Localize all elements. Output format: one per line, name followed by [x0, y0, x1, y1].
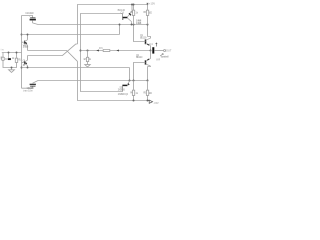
node arrow marker on output line: [116, 50, 119, 52]
node feedback resistor tap: [87, 50, 89, 52]
transistor Q6 lower driver: [22, 56, 28, 68]
node Q3 collector on bias line: [131, 24, 133, 26]
node OUT port circle: [164, 50, 166, 52]
wire lower emitter line: [22, 67, 130, 69]
svg-text:+15V: +15V: [149, 3, 156, 6]
wire Q2 base feed: [134, 63, 146, 81]
wire top bias line: [38, 24, 148, 26]
wire trunk output net lower (to Q4 base line): [81, 51, 123, 92]
ground feedback: [85, 65, 90, 67]
wire input line from source to trunk: [2, 52, 22, 54]
svg-text:-15V: -15V: [153, 102, 159, 105]
svg-text:OUT: OUT: [166, 49, 172, 52]
node R4 top rail junction: [133, 4, 135, 6]
wire V+ top rail: [78, 5, 148, 45]
text labels (tiny, illegible at scale): [0, 3, 172, 105]
svg-text:2N3906 Q4: 2N3906 Q4: [118, 93, 129, 96]
wire C2 to top bias line (diagonal): [33, 23, 39, 25]
wire V1 minus to ground run: [3, 61, 12, 68]
svg-text:C2 100nF: C2 100nF: [25, 12, 34, 15]
node upper driver emitter junction: [27, 34, 29, 36]
wire riser C1 to input line: [8, 53, 10, 59]
wire input vertical trunk: [21, 16, 23, 89]
node output trunk junction: [80, 50, 82, 52]
voltage source V1: [1, 57, 5, 61]
svg-text:speaker8: speaker8: [161, 56, 169, 59]
node R4 bias junction: [133, 24, 135, 26]
svg-text:2N3906: 2N3906: [23, 46, 29, 49]
node ground junction: [11, 67, 13, 69]
wire C2 top connection: [22, 16, 33, 18]
resistor R4b bottom: [132, 81, 134, 101]
node lower corner on bottom bias line: [129, 80, 131, 82]
wire C3 to bottom bias line (diagonal): [33, 81, 39, 84]
ground input: [9, 70, 15, 73]
wire upper emitter line: [22, 34, 120, 36]
transistor Q3 upper middle: [122, 5, 132, 25]
node R5 bias junction: [147, 24, 149, 26]
power flag -15V bottom: [148, 100, 153, 103]
node C1 riser junction: [8, 52, 10, 54]
svg-text:BD139: BD139: [140, 36, 147, 39]
resistor R5b bottom: [146, 81, 148, 101]
wire upper emitter line corner to bias: [119, 25, 121, 35]
transistor Q2 output bottom: [146, 51, 151, 67]
svg-text:R6: R6: [99, 47, 103, 50]
node V+ flag junction: [147, 4, 149, 6]
resistor R5 top: [146, 5, 148, 25]
node V- rail end junction: [147, 100, 149, 102]
wire C3 bottom connection: [22, 86, 33, 88]
svg-text:.tran 10m: .tran 10m: [23, 89, 33, 92]
arrow current marker above cap: [156, 43, 158, 47]
transistor Q1 output top: [146, 37, 151, 51]
resistor R4 top: [132, 5, 134, 25]
resistor R1: [12, 58, 18, 67]
node R4b bias junction: [133, 80, 135, 82]
wire lower emitter line corner to bottom bias: [129, 68, 131, 81]
transistor Q4 lower middle: [122, 81, 129, 92]
wire Q2 collector branch to bottom bias: [147, 67, 149, 81]
wire output line left: [81, 50, 104, 52]
wire output cap to port: [154, 50, 163, 52]
svg-text:8R: 8R: [156, 58, 160, 61]
wire riser R1 to input line: [16, 53, 18, 59]
node R1 riser junction: [16, 52, 18, 54]
arrow marker left on output line: [96, 50, 99, 52]
power flag +15V top: [147, 3, 149, 4]
wire X line1 (upper driver collector to V- trunk): [28, 51, 78, 62]
svg-text:BD140: BD140: [136, 56, 143, 59]
transistor Q5 upper driver: [22, 35, 28, 51]
resistor R6 output series: [103, 50, 150, 52]
capacitor C4 output (dark plates): [152, 47, 154, 53]
node R4b bottom rail junction: [133, 100, 135, 102]
node input to driver top line: [21, 34, 23, 36]
capacitor C3: [30, 83, 36, 86]
resistor R2 feedback to ground: [86, 51, 88, 65]
wire V- bottom rail: [78, 61, 148, 100]
node upper corner on bias line: [119, 24, 121, 26]
node Q1 emitter output junction: [150, 50, 152, 52]
node Q3 emitter on V+ rail: [131, 4, 133, 6]
wire bias to Q1 collector branch: [147, 25, 149, 37]
svg-text:2N: 2N: [23, 64, 25, 67]
node Q2 collector bias junction: [147, 80, 149, 82]
wire bottom bias line: [38, 80, 148, 82]
capacitor C2: [30, 18, 36, 23]
wire V1 to C1: [5, 58, 8, 60]
wire node to ground: [11, 68, 13, 70]
svg-text:1N4148: 1N4148: [136, 22, 142, 25]
probe arrow at output: [160, 54, 163, 56]
node input to driver bottom line: [21, 67, 23, 69]
wire X line2 (lower driver collector to V+ trunk): [28, 44, 78, 56]
wire Q1 base feed: [134, 25, 146, 42]
svg-text:2N3906: 2N3906: [118, 88, 126, 91]
wire V1 plus to input line: [2, 53, 4, 58]
wire Q3 base line from trunk: [81, 14, 123, 51]
node lower driver emitter junction: [27, 67, 29, 69]
capacitor C1: [8, 58, 11, 60]
